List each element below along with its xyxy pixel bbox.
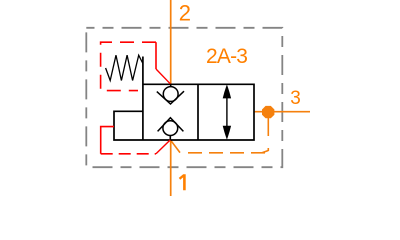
- label port 1: [179, 174, 186, 190]
- wire port 3 (orange horizontal): [254, 111, 310, 113]
- pilot wire dashed horizontal: [101, 153, 156, 155]
- wire orange dashed elbow: [262, 151, 268, 153]
- wire spring stem vertical: [142, 57, 144, 141]
- wire orange dashed horizontal: [181, 152, 266, 154]
- check valve top: seat: [157, 91, 184, 104]
- wire port 2 (orange vertical, top): [170, 0, 172, 84]
- check valve bottom: stub: [169, 135, 171, 140]
- spring: [106, 55, 143, 80]
- check valve bottom: seat: [158, 118, 184, 132]
- check valve top: ball: [163, 87, 178, 102]
- node junction dot port 3: [262, 106, 274, 118]
- wire port 1 (orange vertical, bottom): [170, 140, 172, 196]
- pilot box right edge: [155, 42, 157, 69]
- pilot wire diagonal to node 1: [156, 140, 170, 154]
- valve body divider: [197, 84, 199, 140]
- enclosure boundary (gray dashed): [86, 28, 282, 167]
- pilot wire diagonal to node 2: [156, 69, 170, 84]
- double arrow shaft: [226, 95, 228, 129]
- check valve bottom: ball: [163, 121, 178, 136]
- svg-text:2: 2: [179, 1, 191, 26]
- pilot wire elbow (red solid): [101, 127, 114, 154]
- valve body outline: [114, 84, 254, 140]
- wire orange diagonal from port 1: [171, 140, 180, 152]
- pilot boundary (red dashed box around spring): [101, 42, 156, 90]
- svg-text:2A-3: 2A-3: [206, 45, 247, 68]
- check valve top: stub: [170, 84, 172, 87]
- double arrow head down: [223, 126, 231, 140]
- svg-text:3: 3: [290, 88, 301, 109]
- wire orange dashed vertical to node 3: [267, 117, 269, 151]
- double arrow head up: [223, 84, 231, 98]
